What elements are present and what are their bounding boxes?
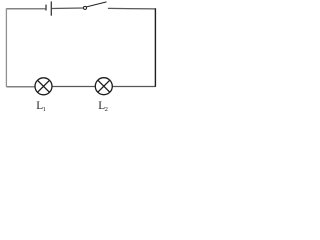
svg-text:1: 1 — [43, 106, 46, 113]
svg-text:2: 2 — [105, 106, 108, 113]
